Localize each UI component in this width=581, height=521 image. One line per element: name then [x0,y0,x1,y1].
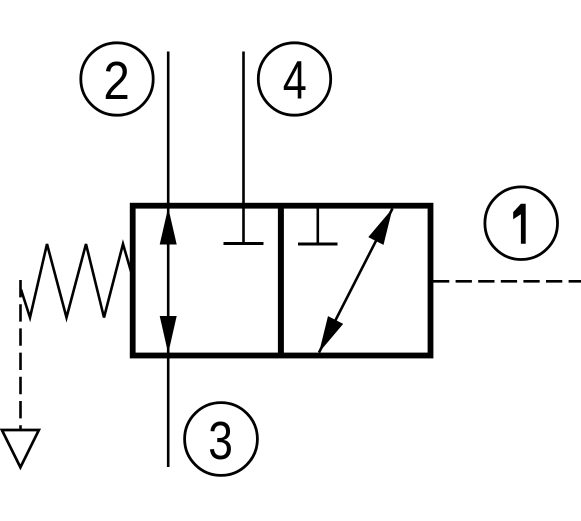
svg-text:3: 3 [208,411,233,471]
diagonal arrow head lower [319,316,343,352]
flow arrow down head [160,316,177,354]
flow arrow up head [160,208,177,245]
port label 3 circle [185,403,258,476]
blocked port T left (port 4) [224,242,264,245]
drain arrow hollow [2,430,39,467]
port 4 line [242,52,245,244]
port label 1 text [513,204,526,244]
diagonal flow arrow shaft [319,209,393,353]
blocked port T right stub [316,206,319,245]
port label 2 circle [81,43,153,115]
port label 1 circle [485,187,558,260]
blocked port T right bar [298,243,338,246]
port 2/3 line [167,52,170,468]
valve body [133,206,431,356]
port label 4 circle [258,43,330,115]
valve divider [278,206,284,356]
svg-text:4: 4 [283,51,307,111]
svg-text:2: 2 [103,50,129,111]
pilot line port 1 dashed [433,280,581,283]
pilot drain dashed line [19,280,22,429]
diagonal arrow head upper [368,209,392,245]
spring [21,244,131,318]
